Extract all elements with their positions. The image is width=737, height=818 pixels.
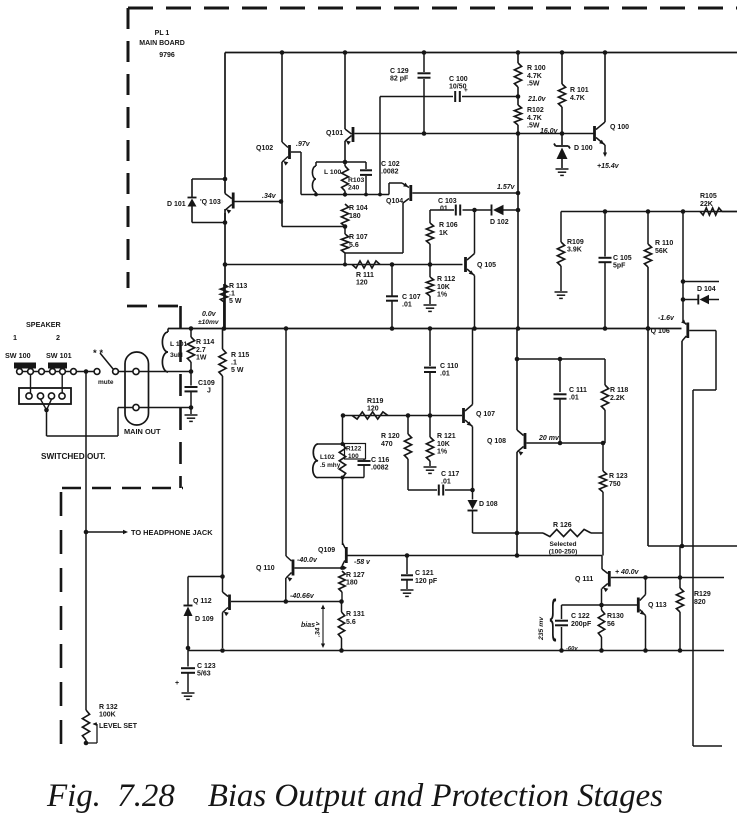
- node C122 bottom: [559, 648, 564, 653]
- wire Q101 collector from rail: [344, 53, 346, 130]
- wire Q105 emitter down to 0v line: [474, 276, 476, 329]
- wire D104 column: [682, 212, 684, 322]
- svg-text:R130: R130: [607, 613, 624, 620]
- wire jack sleeve to C109 bottom: [139, 407, 191, 409]
- resistor R129: [679, 546, 681, 578]
- mute switch blade: [100, 353, 114, 370]
- wire speaker terminal line y=371.5: [17, 371, 98, 373]
- svg-text:1: 1: [13, 333, 17, 342]
- svg-text:82 pF: 82 pF: [390, 76, 409, 83]
- svg-text:2.7: 2.7: [196, 347, 206, 354]
- wire Q104 base line to R102 node: [412, 192, 518, 194]
- wire R115 column to Q112/D109 node: [220, 574, 225, 579]
- svg-text:10K: 10K: [437, 284, 450, 291]
- resistor R120: [407, 416, 409, 435]
- svg-text:R 104: R 104: [349, 205, 368, 212]
- svg-text:.01: .01: [440, 370, 450, 377]
- capacitor C103: [455, 205, 457, 216]
- bias measurement arrow .34v: [322, 608, 324, 644]
- svg-text:20 mv: 20 mv: [538, 435, 560, 442]
- wire to C100: [379, 97, 381, 195]
- wire Q104 emitter step: [388, 183, 390, 195]
- svg-text:+: +: [175, 680, 179, 687]
- svg-text:(100-250): (100-250): [549, 549, 578, 556]
- svg-text:235 mv: 235 mv: [538, 616, 545, 641]
- node Q112 emitter: [220, 648, 225, 653]
- svg-text:.5W: .5W: [527, 81, 540, 88]
- svg-text:C 100: C 100: [449, 76, 468, 83]
- node C110: [428, 326, 433, 331]
- capacitor C105: [604, 212, 606, 257]
- svg-text:R 120: R 120: [381, 433, 400, 440]
- wire Q102 base: [291, 151, 301, 153]
- capacitor C117: [408, 489, 437, 491]
- wire D101-Q103 loop top: [192, 178, 225, 180]
- resistor R118: [604, 359, 606, 385]
- resistor R130: [601, 605, 603, 610]
- svg-text:R 113: R 113: [229, 283, 247, 290]
- svg-text:{: {: [549, 591, 556, 643]
- capacitor C102: [365, 162, 367, 169]
- svg-text:56: 56: [607, 621, 615, 628]
- node tank top column: [341, 413, 346, 418]
- wire block to jack bottom: [46, 410, 48, 436]
- wire C103 branch: [430, 209, 454, 211]
- ground below C109: [190, 408, 192, 415]
- svg-text:3uH: 3uH: [170, 352, 183, 359]
- node C109 bottom: [189, 405, 194, 410]
- svg-text:5 W: 5 W: [231, 367, 244, 374]
- wire Q108 collector branch: [516, 329, 518, 431]
- ground below R109: [555, 291, 568, 293]
- svg-text:R 106: R 106: [439, 222, 458, 229]
- svg-text:SWITCHED OUT.: SWITCHED OUT.: [41, 452, 106, 461]
- wire SW100 to block: [30, 375, 32, 394]
- node L101: [189, 326, 194, 331]
- wire SW101 to block: [61, 375, 63, 394]
- wire tank2 column from R119 node: [342, 416, 344, 445]
- node D102: [516, 208, 521, 213]
- svg-text:.01: .01: [402, 301, 412, 308]
- svg-text:.01: .01: [441, 478, 451, 485]
- wire Q112 emitter down: [222, 613, 224, 649]
- svg-text:R119: R119: [367, 398, 383, 405]
- svg-text:16.0v: 16.0v: [540, 128, 559, 135]
- wire -supply rail y=211.5: [561, 211, 737, 213]
- node C105: [603, 326, 608, 331]
- resistor R131: [341, 602, 343, 613]
- node headphone tap: [84, 369, 89, 374]
- wire -60v feed line y=546: [648, 545, 737, 547]
- svg-text:Q109: Q109: [318, 547, 335, 554]
- wire Q105 collector up to D102 node: [474, 210, 476, 254]
- svg-text:470: 470: [381, 441, 393, 448]
- svg-text:.97v: .97v: [296, 141, 311, 148]
- node rail-R100: [516, 50, 521, 55]
- svg-text:C 121: C 121: [415, 570, 434, 577]
- wire Q106 collector down: [681, 341, 683, 546]
- svg-text:Q104: Q104: [386, 198, 403, 205]
- svg-text:R 123: R 123: [609, 473, 628, 480]
- svg-text:820: 820: [694, 599, 706, 606]
- node C121: [405, 553, 410, 558]
- transistor Q106: [683, 321, 686, 325]
- node left vertical-R111: [223, 262, 228, 267]
- node Q108 branch: [516, 326, 521, 331]
- svg-text:C 111: C 111: [569, 387, 587, 394]
- resistor R112: [429, 265, 431, 278]
- svg-text:Selected: Selected: [549, 541, 576, 548]
- node 1.57v line: [516, 191, 521, 196]
- wire right vertical x=693: [692, 390, 694, 746]
- wire tank2 bottom line: [318, 477, 364, 479]
- ground below D100: [556, 168, 569, 170]
- svg-text:C 122: C 122: [571, 613, 590, 620]
- node R121-C110: [428, 413, 433, 418]
- svg-text:Q 112: Q 112: [193, 598, 212, 605]
- node .34v: [279, 199, 284, 204]
- transistor Q112: [223, 592, 229, 597]
- svg-text:22K: 22K: [700, 201, 713, 208]
- resistor R101: [561, 53, 563, 85]
- svg-text:R 100: R 100: [527, 65, 546, 72]
- svg-text:4.7K: 4.7K: [527, 115, 542, 122]
- resistor R114: [190, 329, 192, 338]
- node headphone jack tap: [84, 530, 89, 535]
- transistor Q102: [282, 142, 288, 148]
- svg-text:R 132: R 132: [99, 704, 118, 711]
- svg-text:4.7K: 4.7K: [527, 73, 542, 80]
- transistor Q104: [402, 183, 409, 188]
- jack tip terminal: [133, 368, 139, 374]
- wire Q110 emitter down: [285, 578, 287, 602]
- ground below C121: [401, 589, 414, 591]
- wire Q101 emitter to tank top: [344, 141, 346, 162]
- node Q105-Q107: [472, 326, 477, 331]
- svg-text:Q 105: Q 105: [477, 262, 496, 269]
- svg-text:120: 120: [367, 406, 379, 413]
- svg-text:.0082: .0082: [371, 465, 389, 472]
- svg-text:-1.6v: -1.6v: [658, 315, 675, 322]
- svg-text:2.2K: 2.2K: [610, 395, 625, 402]
- wire left vertical from rail to Q103: [224, 53, 226, 194]
- svg-text:C 105: C 105: [613, 255, 632, 262]
- svg-text:bias: bias: [301, 622, 315, 629]
- node R110-0v line: [646, 326, 651, 331]
- svg-text:+ 40.0v: + 40.0v: [615, 569, 640, 576]
- node C107: [390, 326, 395, 331]
- svg-text:C 123: C 123: [197, 663, 216, 670]
- resistor R106: [426, 223, 433, 244]
- node R102-base: [516, 131, 521, 136]
- svg-text:L 100: L 100: [324, 169, 341, 176]
- node R113-R115: [222, 326, 227, 331]
- resistor R100: [517, 53, 519, 64]
- wire Q111 emitter down: [601, 589, 603, 606]
- inductor L102: [313, 444, 318, 478]
- resistor R123: [602, 443, 604, 471]
- capacitor C121: [406, 556, 408, 575]
- node C129-base: [422, 131, 427, 136]
- transistor Q101: [345, 129, 352, 134]
- svg-text:180: 180: [346, 580, 358, 587]
- diode D102: [491, 205, 493, 216]
- node C111-R118 top line: [515, 357, 520, 362]
- inductor L101: [167, 329, 169, 333]
- svg-text:3.9K: 3.9K: [567, 247, 582, 254]
- resistor R121: [429, 416, 431, 438]
- svg-text:C 110: C 110: [440, 363, 458, 370]
- transistor Q110: [286, 556, 292, 561]
- node R129 top: [678, 575, 683, 580]
- node D109-C123 bottom line: [186, 646, 191, 651]
- svg-text:.0082: .0082: [381, 169, 399, 176]
- wire tank2 to Q109 collector: [342, 478, 344, 546]
- wire R111 line y=264.5: [225, 264, 463, 266]
- svg-text:R 101: R 101: [570, 87, 589, 94]
- svg-text:1W: 1W: [196, 355, 207, 362]
- node Q106 collector-546: [680, 544, 685, 549]
- node Q110 branch: [284, 326, 289, 331]
- svg-text:2: 2: [56, 333, 60, 342]
- svg-text:Q 110: Q 110: [256, 565, 275, 572]
- svg-text:.01: .01: [569, 395, 579, 402]
- svg-text:D 101: D 101: [167, 201, 186, 208]
- svg-text:TO HEADPHONE JACK: TO HEADPHONE JACK: [131, 528, 213, 537]
- ground below R112: [424, 304, 437, 306]
- svg-text:R 114: R 114: [196, 339, 214, 346]
- svg-text:56K: 56K: [655, 248, 668, 255]
- resistor R113: [223, 284, 225, 328]
- transistor Q103: [225, 194, 232, 199]
- svg-text:240: 240: [348, 184, 360, 191]
- resistor R110: [647, 212, 649, 245]
- zener diode D100: [561, 134, 563, 146]
- board boundary PL1 dashed top edge: [128, 7, 737, 10]
- svg-text:.5 mhy: .5 mhy: [320, 462, 341, 469]
- ground below R121: [424, 466, 437, 468]
- svg-text:750: 750: [609, 481, 621, 488]
- capacitor C109: [190, 372, 192, 386]
- board boundary dashed vertical x=180: [179, 306, 182, 488]
- wire bottom -60v rail y=650: [188, 650, 724, 652]
- svg-text:Q 107: Q 107: [476, 411, 495, 418]
- svg-text:Q101: Q101: [326, 130, 343, 137]
- node C107 top: [390, 262, 395, 267]
- wire Q113 collector up: [645, 578, 647, 595]
- capacitor C122: [561, 605, 563, 619]
- node C117-D108: [470, 488, 475, 493]
- svg-text:4.7K: 4.7K: [570, 95, 585, 102]
- wire Q108 emitter down to R126 line: [516, 452, 518, 533]
- node R101-D100-base: [560, 131, 565, 136]
- svg-text:120 pF: 120 pF: [415, 578, 438, 585]
- svg-text:1.57v: 1.57v: [497, 184, 516, 191]
- svg-text:R109: R109: [567, 239, 584, 246]
- transistor Q111: [601, 556, 603, 570]
- svg-text:* *: * *: [93, 348, 103, 359]
- wire Q100 emitter to +15.4v: [604, 145, 606, 154]
- svg-text:MAIN BOARD: MAIN BOARD: [139, 40, 185, 47]
- svg-text:C 116: C 116: [371, 457, 389, 464]
- svg-text:C 102: C 102: [381, 161, 400, 168]
- transistor Q108: [517, 430, 524, 436]
- svg-text:120: 120: [356, 280, 368, 287]
- board boundary dashed vertical x=61 bottom left: [60, 492, 63, 746]
- wire Q109 emitter to node: [341, 566, 343, 568]
- svg-text:Q 113: Q 113: [648, 602, 667, 609]
- svg-text:.1: .1: [231, 360, 237, 367]
- svg-text:21.0v: 21.0v: [527, 96, 547, 103]
- rheostat R132: [82, 710, 89, 740]
- resistor R107: [341, 234, 348, 253]
- svg-text:9796: 9796: [159, 52, 175, 59]
- svg-text:D 100: D 100: [574, 145, 593, 152]
- node D104 upper stub: [681, 279, 686, 284]
- wire Q111-Q113 base line y=605: [562, 604, 638, 606]
- svg-text:Q 111: Q 111: [575, 576, 593, 583]
- diode D104: [681, 297, 686, 302]
- transistor Q105: [464, 257, 467, 272]
- svg-text:Q102: Q102: [256, 145, 273, 152]
- node rail-Q102: [280, 50, 285, 55]
- wire Q101 base line y=133.5: [355, 133, 595, 135]
- node R114-L101-speaker line: [189, 369, 194, 374]
- capacitor C111: [559, 359, 561, 392]
- terminal circles: [17, 369, 23, 375]
- wire Q106 base to right edge stub: [689, 330, 716, 332]
- node R107 bottom: [343, 263, 347, 267]
- inductor L100: [315, 162, 317, 166]
- board boundary dashed step at y=306: [127, 305, 179, 308]
- svg-text:SPEAKER: SPEAKER: [26, 320, 62, 329]
- svg-text:R122: R122: [346, 446, 362, 453]
- wire tank bottom line y=194.5: [301, 194, 389, 196]
- svg-text:mute: mute: [98, 379, 114, 386]
- resistor R103: [342, 166, 349, 191]
- node rail-C129: [422, 50, 427, 55]
- ground below C123: [182, 692, 195, 694]
- svg-text:R 126: R 126: [553, 522, 572, 529]
- wire Q104 collector to R107 bottom: [345, 252, 403, 254]
- wire Q108 base line y=443: [527, 442, 604, 444]
- resistor R105: [700, 208, 722, 215]
- svg-text:-58 v: -58 v: [354, 559, 371, 566]
- node rail-Q100: [603, 50, 608, 55]
- node R100-R102-C100: [516, 94, 521, 99]
- svg-text:J: J: [207, 388, 211, 395]
- capacitor C116: [363, 459, 365, 460]
- svg-text:D 102: D 102: [490, 219, 509, 226]
- svg-text:C 107: C 107: [402, 294, 421, 301]
- svg-text:0.0v: 0.0v: [202, 311, 217, 318]
- svg-text:C 117: C 117: [441, 471, 459, 478]
- svg-text:.34 v: .34 v: [315, 621, 322, 637]
- wire top supply rail y=52: [225, 52, 737, 54]
- wire x=518 vertical down to D102 line: [517, 134, 519, 211]
- wire Q102 emitter to R104 bottom: [281, 202, 283, 227]
- diode D109: [187, 577, 189, 606]
- node R130 bottom: [599, 648, 604, 653]
- svg-text:100: 100: [348, 453, 359, 460]
- capacitor C107: [391, 265, 393, 296]
- node D104 column rail: [681, 209, 686, 214]
- svg-text:-40.0v: -40.0v: [297, 557, 318, 564]
- wire Q110 base to Q109 emitter node: [295, 567, 343, 569]
- svg-text:C 103: C 103: [438, 198, 457, 205]
- node Q108 emitter line: [515, 553, 520, 558]
- jack MAIN OUT body: [125, 352, 149, 425]
- svg-text:R 115: R 115: [231, 352, 249, 359]
- wire 0.0v output rail y=328.5: [168, 328, 682, 330]
- node rail-Q101: [343, 50, 348, 55]
- board boundary dashed left edge: [127, 8, 130, 288]
- wire D101-Q103 loop bottom: [192, 222, 225, 224]
- capacitor C123: [187, 648, 189, 667]
- capacitor C110: [429, 329, 431, 367]
- wire Q102 emitter down to .34v line: [281, 162, 283, 202]
- svg-text:5.6: 5.6: [349, 242, 359, 249]
- resistor R111: [352, 261, 380, 268]
- wire Q111 base line y=577.5: [611, 577, 724, 579]
- wire Q107 collector to 0v line: [472, 329, 474, 405]
- resistor R115: [222, 329, 224, 350]
- transistor Q113: [637, 598, 640, 613]
- wire Q110 collector from 0v line: [285, 329, 287, 557]
- node C105 rail: [603, 209, 608, 214]
- svg-text:R105: R105: [700, 193, 717, 200]
- jack sleeve terminal: [133, 404, 139, 410]
- node Q113 emitter: [643, 648, 648, 653]
- svg-text:1K: 1K: [439, 230, 448, 237]
- capacitor C100: [454, 91, 456, 102]
- svg-text:.34v: .34v: [262, 193, 277, 200]
- connector block SWITCHED OUT: [19, 388, 71, 404]
- svg-text:R 107: R 107: [349, 234, 368, 241]
- wire R107 bottom to R111 line: [344, 253, 346, 265]
- wire D108 to R126 line: [473, 532, 517, 534]
- svg-text:.1: .1: [229, 291, 235, 298]
- svg-text:'Q 106: 'Q 106: [649, 328, 670, 335]
- svg-text:+: +: [464, 87, 468, 94]
- svg-text:R 118: R 118: [610, 387, 628, 394]
- svg-text:LEVEL SET: LEVEL SET: [99, 723, 138, 730]
- wire Q112 base line -40.66v: [231, 601, 342, 603]
- wire right stub down: [715, 331, 717, 391]
- svg-text:1%: 1%: [437, 292, 448, 299]
- wire Q103 collector-emitter vertical: [224, 213, 226, 327]
- node C103-D102-Q105: [472, 208, 477, 213]
- svg-text:R129: R129: [694, 591, 711, 598]
- svg-text:180: 180: [349, 213, 361, 220]
- wire headphone vertical: [85, 372, 87, 711]
- svg-text:5.6: 5.6: [346, 619, 356, 626]
- svg-text:D 108: D 108: [479, 501, 498, 508]
- wire Q107 emitter down: [472, 427, 474, 491]
- svg-text:200pF: 200pF: [571, 621, 592, 628]
- wire R119 base line y=415.5: [343, 415, 462, 417]
- svg-text:R 131: R 131: [346, 611, 365, 618]
- wire x=518 vertical down to Q108 emitter region: [517, 210, 519, 329]
- wire bottom right corner: [693, 745, 722, 747]
- svg-text:+15.4v: +15.4v: [597, 163, 620, 170]
- svg-text:R 111: R 111: [356, 272, 374, 279]
- wire Q103 base to .34v node: [235, 201, 282, 203]
- node rail-R101: [560, 50, 565, 55]
- wire Q109 collector line y=555.5: [347, 555, 602, 557]
- resistor R104: [341, 204, 348, 227]
- svg-text:5/63: 5/63: [197, 671, 211, 678]
